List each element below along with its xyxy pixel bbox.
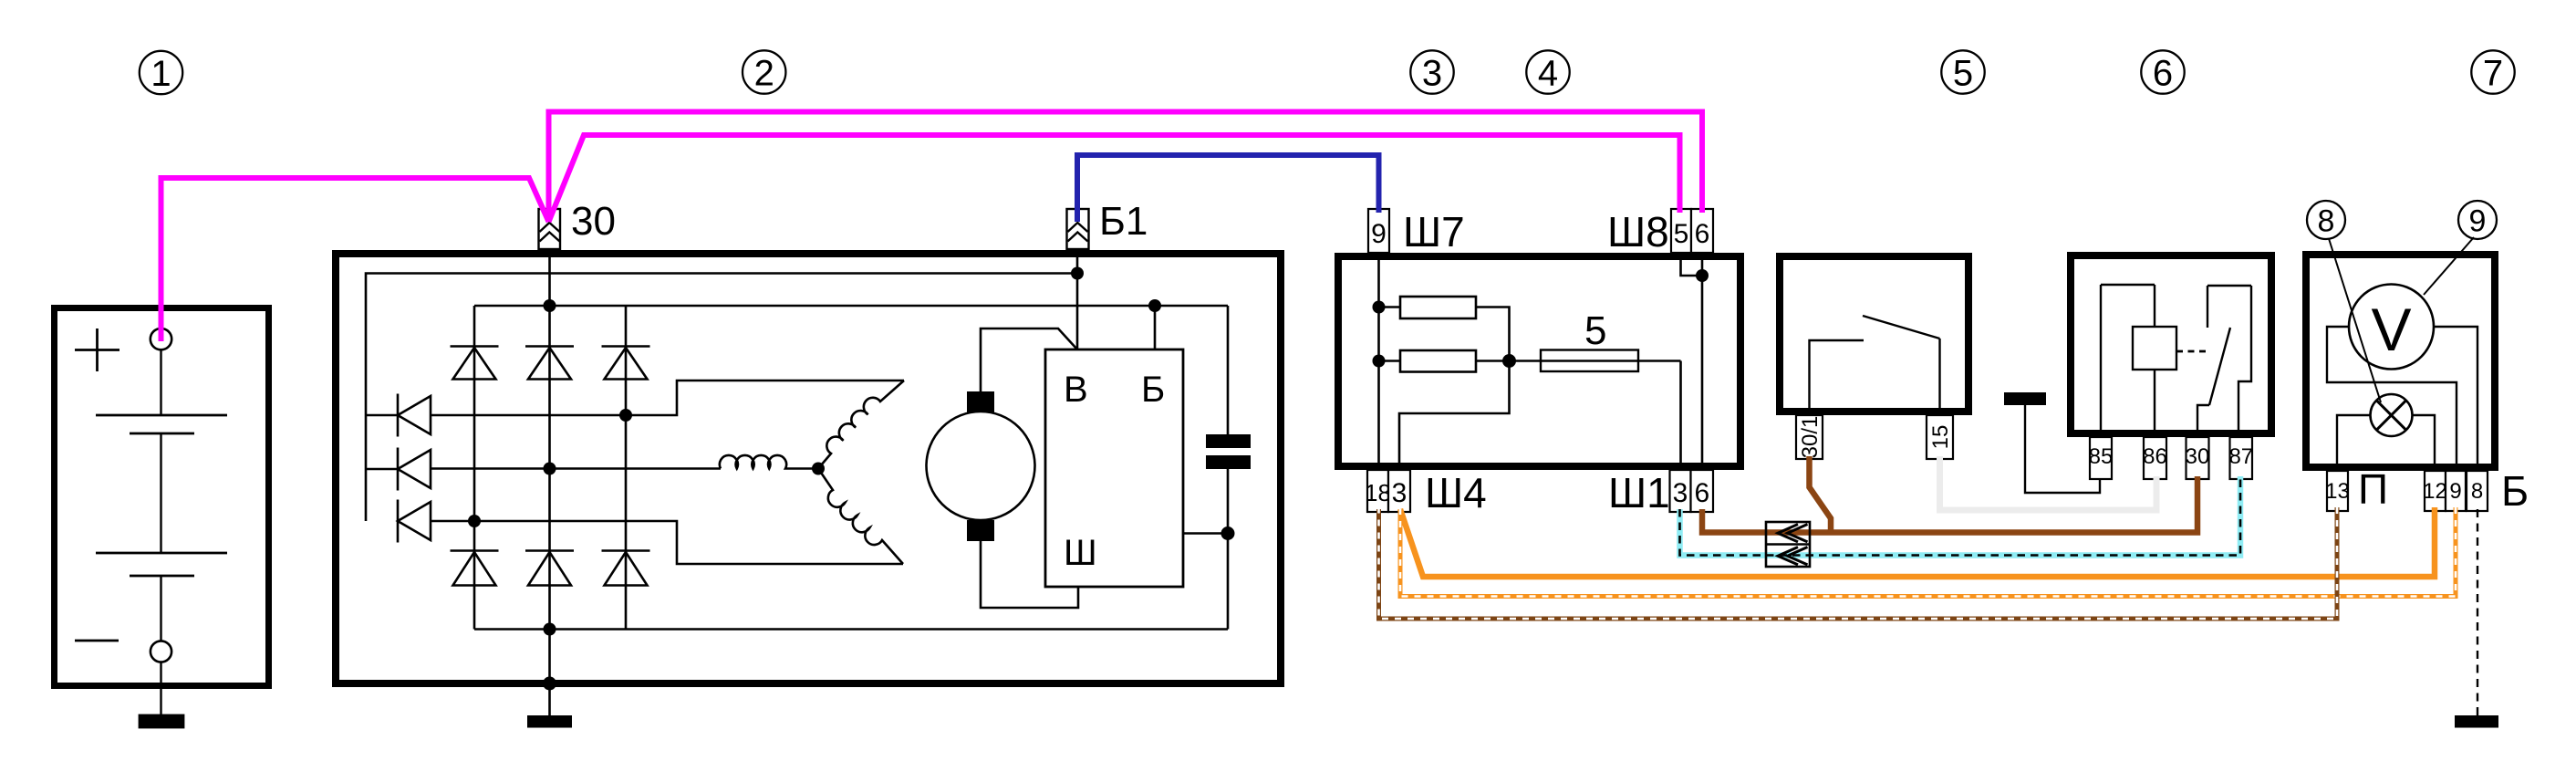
connector Sh4 pin 3	[1388, 470, 1410, 512]
node capacitor lower lead	[1221, 527, 1235, 540]
connector pin 85	[2090, 437, 2112, 479]
svg-text:П: П	[2358, 465, 2388, 513]
SECTION: relay	[2004, 255, 2271, 493]
ground battery	[140, 715, 183, 727]
voltmeter V circle	[2349, 285, 2434, 370]
ground relay bar	[2004, 392, 2046, 405]
battery minus sign	[75, 640, 119, 642]
callout 4 fuse box	[1526, 50, 1569, 93]
switch blade	[1863, 316, 1940, 339]
svg-text:3: 3	[1673, 478, 1688, 508]
wire ignition 30/1 branch (brown)	[1810, 456, 1832, 533]
wire rectifier column 3	[625, 306, 628, 630]
wire rectifier column 1	[473, 306, 476, 630]
svg-text:30/1: 30/1	[1798, 416, 1823, 459]
voltage regulator box	[1045, 349, 1183, 587]
node stator star point	[812, 463, 825, 475]
diode VD6 bottom column3	[602, 551, 650, 586]
svg-text:13: 13	[2325, 479, 2350, 504]
svg-text:Ш: Ш	[1064, 533, 1097, 573]
node Sh8 link	[1696, 269, 1709, 282]
svg-text:3: 3	[1422, 54, 1442, 94]
wire Sh4-3 to cluster 12 (orange)	[1400, 507, 2435, 577]
svg-text:4: 4	[1538, 54, 1558, 94]
cell 2 long plate	[96, 552, 227, 555]
wire positive bus (top)	[474, 305, 1228, 308]
svg-text:18: 18	[1365, 479, 1391, 506]
svg-text:Б1: Б1	[1099, 199, 1148, 244]
diode VD5 bottom column2	[525, 551, 574, 586]
instrument cluster box	[2306, 255, 2495, 467]
wire terminal 30 to Sh8-5 (pink)	[549, 135, 1680, 222]
wire stator phase 2	[431, 467, 721, 470]
cell 1 long plate	[96, 414, 227, 417]
svg-text:В: В	[1064, 370, 1088, 410]
wire lower brush to regulator Sh pin	[981, 541, 1078, 608]
wire upper brush to regulator B pin	[981, 328, 1077, 391]
callout 9 leader line	[2424, 237, 2474, 295]
callout 7 instrument cluster	[2471, 50, 2514, 93]
svg-text:2: 2	[754, 54, 774, 94]
svg-text:86: 86	[2143, 444, 2167, 469]
coil to armature dashed link	[2176, 350, 2207, 353]
wire Sh7-9 through block	[1377, 253, 1380, 470]
SECTION: generator	[336, 199, 1281, 728]
callout 2 generator	[743, 50, 785, 93]
node phase1 / column3	[619, 409, 632, 422]
svg-text:8: 8	[2318, 204, 2335, 239]
wire terminal B1 to Sh7-9 (blue)	[1077, 155, 1379, 222]
brush upper	[967, 391, 994, 412]
connector Sh8 pin 6	[1691, 209, 1713, 253]
wire Sh1-6 to relay 30 (brown)	[1702, 476, 2197, 533]
wire to R2	[1379, 360, 1401, 362]
svg-text:9: 9	[2469, 204, 2487, 239]
connector Sh1 pin 6	[1691, 470, 1714, 512]
wire plus terminal to cell 1	[160, 349, 161, 415]
relay box	[2071, 255, 2271, 433]
svg-text:3: 3	[1392, 478, 1407, 508]
wire field-diode cathode bus to B1 node	[366, 274, 1077, 522]
diode VD1 top column1	[451, 347, 499, 380]
battery plus sign	[75, 328, 119, 371]
svg-text:6: 6	[1694, 478, 1709, 508]
node negative bus / column2	[544, 623, 556, 636]
relay contact blade	[2209, 328, 2230, 405]
wire lamp right lead to pin 12	[2413, 415, 2436, 467]
SECTION: callouts	[140, 50, 2515, 402]
diode VD2 top column2	[525, 347, 574, 380]
ignition switch box	[1780, 256, 1968, 412]
svg-text:15: 15	[1928, 425, 1953, 450]
node resistor R2 tap	[1373, 355, 1386, 368]
node generator ground at case	[543, 677, 556, 691]
wire stub field diode VD8	[366, 468, 398, 471]
stator winding L1	[818, 381, 904, 469]
svg-text:V: V	[2371, 296, 2411, 363]
svg-text:6: 6	[1695, 219, 1710, 249]
svg-text:85: 85	[2089, 444, 2114, 469]
wire relay contact 30	[2197, 405, 2209, 437]
wire regulator pin B to positive bus	[1154, 306, 1157, 349]
node regulator B / positive bus	[1148, 299, 1161, 312]
charge lamp symbol	[2371, 394, 2413, 436]
rotor field winding circle	[927, 412, 1035, 520]
wire relay coil top link	[2101, 284, 2155, 286]
svg-text:87: 87	[2228, 444, 2253, 469]
svg-text:12: 12	[2423, 479, 2447, 504]
node phase2 / column2	[544, 463, 556, 475]
SECTION: cluster	[2306, 255, 2529, 728]
svg-text:Ш8: Ш8	[1607, 208, 1669, 255]
fuse F5 body	[1541, 350, 1638, 372]
node resistor R1 tap	[1373, 301, 1386, 314]
resistor R2	[1400, 350, 1476, 372]
diode VD4 bottom column1	[451, 551, 499, 586]
svg-text:Ш4: Ш4	[1425, 469, 1487, 516]
resistor R1	[1400, 297, 1476, 318]
wire Sh1-3 to relay 87 (light blue dashed)	[1680, 476, 2241, 556]
connector pin 30/1	[1796, 415, 1823, 459]
capacitor C plates	[1206, 434, 1251, 448]
callout 8 lamp	[2307, 201, 2345, 239]
wire R1 to junction	[1476, 308, 1510, 361]
mounting block box	[1338, 256, 1740, 466]
wire cluster 8 to ground (black dashed)	[2477, 509, 2478, 715]
callout 1 battery	[140, 51, 182, 94]
connector pin 86	[2144, 437, 2166, 479]
stator winding L3	[818, 469, 903, 565]
wire Sh8-5 link	[1681, 253, 1703, 276]
connector pin 30	[2186, 437, 2209, 479]
field diode VD7	[398, 394, 431, 437]
battery GB box	[55, 308, 269, 686]
wire relay pin 87	[2238, 286, 2251, 437]
field diode VD9	[398, 500, 431, 543]
node positive bus / column2	[544, 299, 556, 312]
connector pin 87	[2230, 437, 2253, 479]
wire regulator right side to capacitor	[1183, 532, 1228, 535]
wire switch pole 30/1	[1810, 340, 1864, 415]
capacitor C upper lead	[1227, 306, 1230, 434]
brush lower	[967, 520, 994, 541]
wire coil lower lead to pin 86	[2154, 370, 2155, 437]
wire negative bus (bottom)	[474, 628, 1228, 631]
svg-text:Ш1: Ш1	[1608, 469, 1670, 516]
wire Sh4-18 to cluster 13 (brown dashed)	[1379, 507, 2338, 619]
battery minus terminal circle	[151, 641, 171, 662]
wire switch contact 15	[1938, 339, 1940, 415]
node phase3 / column1	[468, 515, 481, 527]
SECTION: ignition	[1780, 256, 1968, 459]
relay coil K	[2133, 327, 2176, 370]
callout 3 mounting block	[1410, 50, 1453, 93]
svg-text:5: 5	[1584, 308, 1606, 353]
svg-text:7: 7	[2483, 54, 2503, 94]
svg-text:9: 9	[2449, 479, 2461, 504]
connector pin 15	[1927, 415, 1953, 459]
wire terminal B1 to regulator pin V	[1076, 249, 1079, 349]
wire terminal 30 column / ground lead	[548, 249, 551, 717]
svg-text:Ш7: Ш7	[1403, 208, 1465, 255]
svg-text:1: 1	[151, 54, 171, 94]
SECTION: block	[1338, 208, 1740, 516]
wire to R1	[1379, 306, 1401, 308]
connector Sh1 pin 3	[1670, 470, 1691, 512]
wire voltmeter right lead to pin 8	[2434, 327, 2477, 467]
capacitor C lower lead	[1227, 469, 1230, 630]
diode VD3 top column3	[602, 347, 650, 380]
wire ignition 15 to relay 86 (white)	[1940, 456, 2157, 510]
svg-text:5: 5	[1953, 54, 1973, 94]
node R1 R2 junction	[1502, 354, 1516, 368]
callout 8 leader line	[2329, 239, 2381, 403]
cell 1 short plate	[130, 433, 194, 435]
SECTION: battery	[55, 308, 269, 728]
wire voltmeter left lead to pin 9	[2327, 327, 2457, 467]
SECTION: wires	[161, 112, 2478, 716]
svg-text:30: 30	[571, 199, 616, 244]
connector X harness symbol	[1766, 522, 1810, 567]
field diode VD8	[398, 448, 431, 491]
ground cluster bar	[2455, 715, 2498, 728]
wire cell 2 to minus terminal	[160, 576, 161, 641]
connector pin 13	[2327, 471, 2348, 511]
stator winding L2	[720, 455, 818, 469]
wire battery plus to terminal 30 (pink)	[161, 178, 549, 341]
wire lamp left lead to pin 13	[2337, 415, 2371, 467]
callout 5 ignition switch	[1941, 50, 1984, 93]
wire relay contact top link	[2207, 285, 2251, 287]
svg-text:8: 8	[2471, 479, 2483, 504]
connector pin 8	[2467, 471, 2488, 511]
wire terminal 30 to Sh8-6 (pink)	[549, 112, 1703, 223]
connector Sh7 pin 9	[1368, 209, 1389, 253]
wire Sh8-6 to Sh1-6	[1701, 253, 1704, 470]
wire cell 1 to cell 2	[160, 433, 161, 553]
wire Sh4-3 to junction	[1399, 361, 1510, 471]
wire stator phase 3	[431, 521, 903, 564]
wire minus terminal to ground	[160, 662, 161, 717]
generator G box	[336, 254, 1281, 683]
connector pin 9	[2446, 471, 2466, 511]
node B1 / field diode bus	[1071, 267, 1084, 280]
ground generator	[527, 715, 572, 728]
relay fixed contact	[2207, 286, 2208, 328]
wire stub field diode VD7	[366, 414, 398, 417]
svg-text:6: 6	[2153, 54, 2173, 94]
callout 9 voltmeter	[2458, 201, 2497, 239]
terminal 30 connector	[539, 209, 561, 249]
svg-text:30: 30	[2186, 444, 2210, 469]
terminal B1 connector	[1067, 209, 1089, 249]
wire coil upper lead	[2154, 285, 2155, 327]
connector Sh8 pin 5	[1671, 209, 1691, 253]
svg-text:Б: Б	[2501, 467, 2529, 515]
wire relay pin 85	[2100, 285, 2102, 437]
svg-text:9: 9	[1371, 219, 1387, 249]
wire stator phase 1	[431, 381, 904, 415]
callout 6 relay	[2141, 50, 2184, 93]
wire Sh4-3 to cluster 9 (orange dashed)	[1400, 507, 2456, 597]
wire through fuse to Sh1-3	[1510, 361, 1681, 471]
wire ground to pin 85	[2025, 405, 2100, 493]
connector Sh4 pin 18	[1367, 470, 1388, 512]
battery plus terminal circle	[151, 328, 171, 349]
connector pin 12	[2425, 471, 2446, 511]
svg-text:Б: Б	[1141, 370, 1165, 410]
cell 2 short plate	[130, 575, 194, 578]
svg-text:5: 5	[1674, 219, 1689, 249]
wire R2 to junction	[1476, 360, 1510, 362]
